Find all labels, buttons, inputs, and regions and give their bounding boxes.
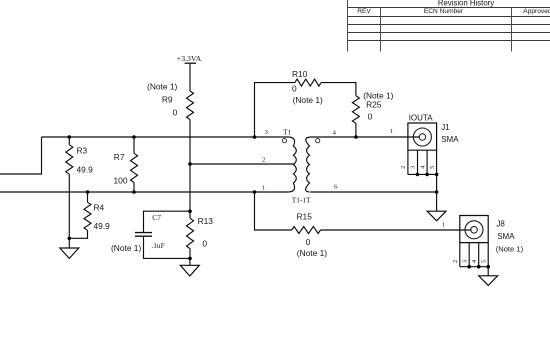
svg-text:ECN Number: ECN Number bbox=[424, 8, 464, 15]
svg-text:0: 0 bbox=[173, 108, 178, 118]
svg-text:SMA: SMA bbox=[497, 232, 515, 241]
svg-text:IOUTA: IOUTA bbox=[409, 113, 434, 122]
svg-text:2: 2 bbox=[262, 157, 265, 164]
svg-text:C7: C7 bbox=[152, 213, 161, 222]
svg-text:0: 0 bbox=[306, 237, 311, 247]
svg-text:3: 3 bbox=[265, 129, 269, 136]
svg-text:5: 5 bbox=[480, 260, 487, 263]
svg-text:(Note 1): (Note 1) bbox=[496, 244, 524, 253]
svg-text:1: 1 bbox=[390, 128, 393, 135]
svg-text:4: 4 bbox=[419, 166, 426, 169]
svg-text:0: 0 bbox=[368, 112, 373, 122]
svg-text:(Note 1): (Note 1) bbox=[297, 248, 327, 258]
svg-text:49.9: 49.9 bbox=[94, 221, 111, 231]
svg-text:R7: R7 bbox=[114, 152, 125, 162]
svg-text:1: 1 bbox=[442, 222, 445, 229]
svg-text:(Note 1): (Note 1) bbox=[147, 82, 177, 92]
svg-text:3: 3 bbox=[410, 166, 417, 169]
svg-text:R3: R3 bbox=[77, 146, 88, 156]
svg-text:T1-1T: T1-1T bbox=[292, 196, 311, 205]
svg-text:R9: R9 bbox=[162, 95, 173, 105]
svg-text:J8: J8 bbox=[496, 219, 505, 228]
svg-text:R15: R15 bbox=[297, 212, 313, 222]
svg-text:6: 6 bbox=[334, 184, 338, 191]
svg-text:R13: R13 bbox=[198, 216, 214, 226]
svg-text:Revision History: Revision History bbox=[438, 0, 494, 7]
svg-text:5: 5 bbox=[429, 166, 436, 169]
svg-text:R10: R10 bbox=[292, 69, 308, 79]
svg-text:4: 4 bbox=[471, 260, 478, 263]
svg-text:(Note 1): (Note 1) bbox=[111, 243, 141, 253]
svg-text:100: 100 bbox=[114, 176, 128, 186]
svg-text:.1uF: .1uF bbox=[151, 241, 164, 250]
svg-text:SMA: SMA bbox=[441, 135, 459, 144]
svg-text:R4: R4 bbox=[94, 203, 105, 213]
svg-text:3: 3 bbox=[461, 260, 468, 263]
svg-text:0: 0 bbox=[292, 83, 297, 93]
svg-text:J1: J1 bbox=[441, 123, 450, 132]
svg-text:49.9: 49.9 bbox=[77, 165, 94, 175]
svg-text:0: 0 bbox=[202, 238, 207, 248]
svg-text:1: 1 bbox=[262, 185, 265, 192]
svg-text:+3.3VA: +3.3VA bbox=[177, 54, 202, 63]
svg-text:T1: T1 bbox=[283, 129, 291, 137]
svg-text:REV: REV bbox=[357, 8, 371, 15]
svg-text:2: 2 bbox=[400, 166, 407, 169]
svg-text:2: 2 bbox=[452, 260, 459, 263]
svg-text:(Note 1): (Note 1) bbox=[293, 95, 323, 105]
svg-text:4: 4 bbox=[333, 130, 337, 137]
svg-text:Approved: Approved bbox=[523, 8, 550, 15]
svg-text:R25: R25 bbox=[366, 99, 382, 109]
